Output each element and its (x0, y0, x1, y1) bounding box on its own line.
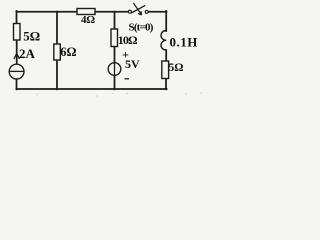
scan speck dots below bottom wire (36, 92, 201, 96)
svg-text:5Ω: 5Ω (169, 62, 184, 74)
voltage source 5V circle (108, 63, 121, 76)
wire between 10ohm and 5V source (114, 47, 116, 63)
current source I1 arrow 2A (14, 53, 20, 60)
svg-text:5V: 5V (125, 57, 140, 71)
svg-text:6Ω: 6Ω (60, 45, 76, 59)
svg-text:2A: 2A (19, 46, 36, 61)
wire 6ohm branch upper (56, 12, 58, 44)
wire top from 4ohm to switch left contact (95, 11, 128, 13)
current source I1 chord (9, 70, 24, 72)
resistor 6ohm (box) (54, 44, 61, 60)
wire top from left corner to 4ohm resistor (17, 11, 78, 13)
svg-text:10Ω: 10Ω (118, 33, 138, 47)
switch S right contact circle (145, 10, 148, 13)
svg-text:4Ω: 4Ω (81, 14, 95, 26)
resistor 5ohm left (box) (14, 24, 21, 41)
resistor 5ohm right (box) (162, 61, 169, 79)
inductor 0.1H coil (161, 31, 166, 51)
wire 10ohm branch from top wire junction (114, 12, 116, 29)
switch S blade (131, 5, 145, 13)
wire 6ohm branch lower (56, 60, 58, 89)
wire top from switch right contact to right corner (148, 11, 166, 13)
wire inductor to 5ohm resistor (165, 50, 167, 61)
wire left vertical (current source to bottom wire) (16, 79, 18, 89)
wire left vertical (5ohm resistor to current source) (16, 40, 18, 64)
wire right vertical (corner to inductor) (165, 11, 167, 31)
wire 5V source to bottom wire (114, 75, 116, 89)
label minus sign (125, 78, 130, 80)
svg-text:S(t=0): S(t=0) (129, 22, 154, 34)
switch S left contact circle (128, 10, 131, 13)
resistor 10ohm (box) (111, 29, 118, 47)
wire bottom (17, 88, 167, 90)
wire right 5ohm resistor to bottom corner (165, 79, 167, 90)
voltage source 5V internal vertical line (114, 63, 116, 76)
wire left vertical (top corner to 5ohm resistor) (16, 11, 18, 24)
switch S closing arrow (133, 3, 141, 15)
svg-text:5Ω: 5Ω (23, 29, 40, 44)
svg-text:0.1H: 0.1H (170, 35, 198, 50)
current source I1 circle (9, 64, 24, 79)
resistor 4ohm (box, horizontal on top wire) (77, 9, 95, 15)
